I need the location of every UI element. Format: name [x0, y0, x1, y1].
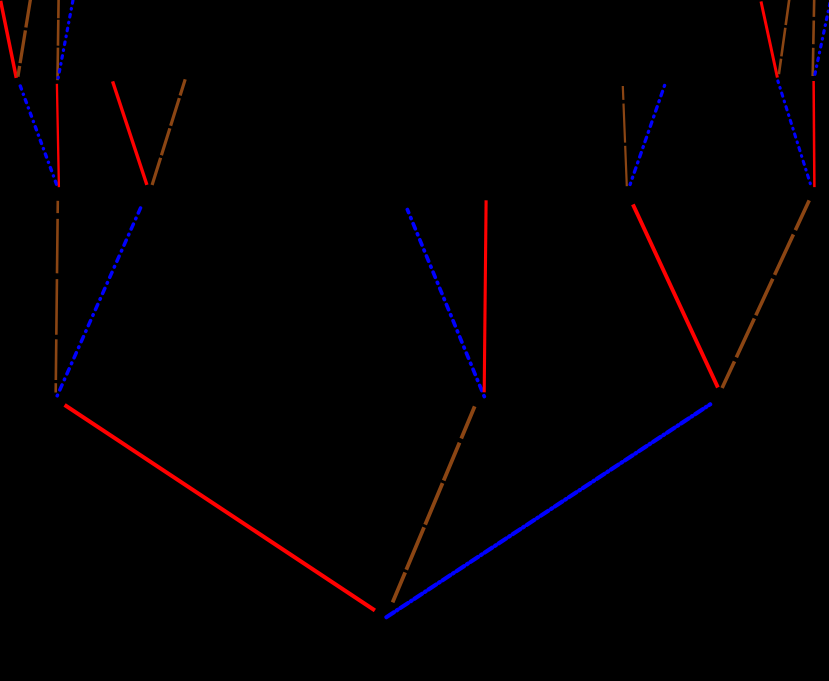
wire red M-Mb: [484, 200, 486, 392]
wire blue D-Da: [778, 81, 810, 184]
wire brown Da-top: [779, 0, 789, 74]
wire brown L2-L2b: [152, 79, 185, 185]
wire brown root-M: [393, 406, 475, 602]
wire brown Db-top: [813, 0, 815, 76]
wire red B-C: [633, 204, 718, 387]
wire brown L1b-top: [58, 0, 59, 80]
wire blue C-Cb: [630, 85, 665, 185]
wire blue A-L2: [57, 204, 142, 396]
wire red root-A: [65, 405, 375, 611]
wire red D-Db: [812, 81, 815, 187]
wire red L1a-topleft: [1, 1, 17, 78]
wire red Da-top: [761, 1, 777, 77]
wire blue root-B: [386, 404, 710, 617]
wire blue L1-L1a: [20, 84, 57, 184]
wire brown B-D: [722, 200, 809, 388]
wire brown L1a-top: [18, 0, 31, 77]
wire blue L1b-top: [58, 0, 73, 78]
wire brown C-Ca: [623, 86, 627, 186]
wire red L2-L2a: [113, 81, 147, 184]
wire blue Db-top: [815, 3, 829, 74]
wire blue M-Ma: [407, 210, 484, 397]
wire brown A-L1: [56, 201, 58, 393]
wire red L1-L1b: [57, 84, 59, 187]
